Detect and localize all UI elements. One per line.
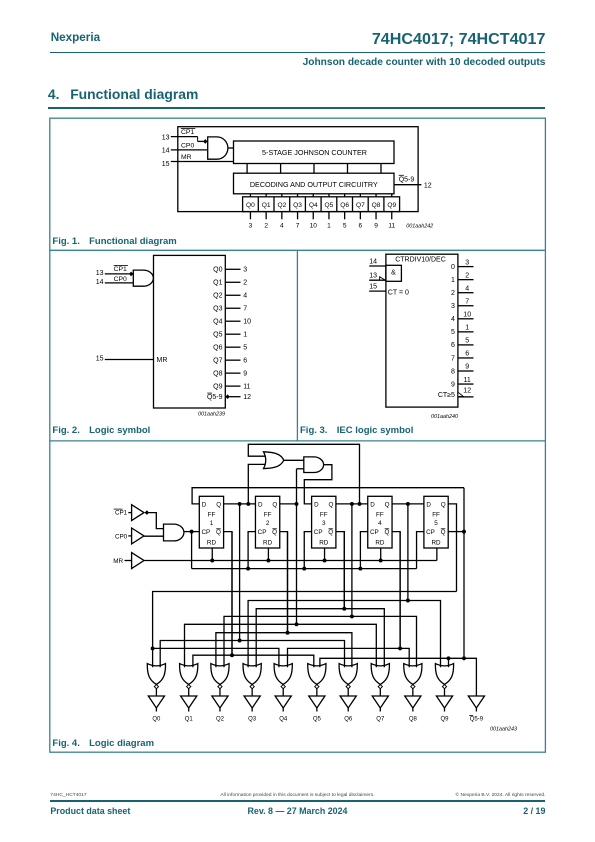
OR gate U1 fig4 (264, 452, 284, 469)
drawing id 001aah240 (431, 414, 458, 420)
svg-text:FF: FF (208, 511, 216, 518)
label CP0 fig2 (114, 276, 127, 283)
node Q5b G9 tap (447, 656, 451, 660)
svg-text:10: 10 (463, 312, 471, 319)
label CT>=5 fig3 (438, 392, 455, 399)
label CP0 fig4 (115, 533, 128, 540)
NOR gate G9 (435, 664, 453, 696)
NOR gate G7 (371, 664, 389, 696)
NOR gate G8 (404, 664, 422, 696)
NOR gate G4 (274, 664, 292, 696)
wire Q1 to OR gate bottom (248, 464, 265, 504)
svg-text:Q2: Q2 (277, 202, 286, 209)
wire Q3b drop (343, 532, 345, 609)
wire CP1 fig2 (105, 273, 129, 275)
pin 14 label fig1 (162, 148, 170, 155)
buffer CP0 fig4 (132, 528, 144, 544)
svg-text:7: 7 (465, 298, 469, 305)
svg-text:14: 14 (162, 148, 170, 155)
svg-text:4: 4 (451, 316, 455, 323)
wire AND output to FF3 D (304, 465, 332, 504)
AND sub-box fig3 (386, 265, 402, 281)
svg-text:6: 6 (359, 223, 363, 230)
svg-text:Q4: Q4 (279, 717, 288, 723)
svg-text:Q: Q (441, 501, 446, 508)
label Q1 (185, 717, 194, 723)
wire FF1 Q to FF2 D (224, 503, 256, 505)
svg-text:Q6: Q6 (344, 717, 353, 723)
svg-text:Q1: Q1 (185, 717, 194, 723)
svg-text:9: 9 (465, 364, 469, 371)
NOR gate G2 (211, 664, 229, 696)
svg-text:RD: RD (375, 540, 385, 547)
svg-text:FF: FF (432, 511, 440, 518)
svg-text:7: 7 (296, 223, 300, 230)
wire Q2 to AND bottom (297, 468, 304, 470)
svg-text:1: 1 (243, 332, 247, 339)
label Q6 (344, 717, 353, 723)
svg-text:Q8: Q8 (372, 202, 381, 209)
inverter Q5 (309, 696, 325, 712)
svg-text:CP0: CP0 (115, 533, 128, 540)
svg-text:Q: Q (272, 529, 277, 536)
NOR gate G0 (147, 664, 165, 696)
wire CP bus (192, 568, 417, 570)
labels Q0-Q9 cells fig1 (246, 202, 396, 209)
svg-text:Q: Q (384, 529, 389, 536)
wire FF2 Q to Q2 riser (280, 503, 297, 505)
wire CP0 input fig1 (171, 149, 208, 151)
svg-text:CP1: CP1 (114, 266, 127, 273)
svg-text:D: D (314, 501, 319, 508)
wire OR to AND fig4 (284, 459, 304, 461)
label CP1 fig1 (181, 128, 196, 136)
svg-text:10: 10 (310, 223, 318, 230)
wire MR fig2 (105, 359, 154, 361)
label Q5-9 fig4 (469, 716, 483, 723)
label CT=0 fig3 (388, 290, 409, 297)
wire Q5b into G9 (448, 658, 450, 667)
label Q9 (440, 717, 449, 723)
pin 15 label fig3 (369, 284, 377, 291)
drawing id 001aah239 (198, 412, 225, 418)
wire MR stub (125, 560, 132, 562)
wire CP0 fig2 (105, 282, 134, 284)
wire Q2 riser-drop (296, 469, 298, 625)
label Q7 (376, 717, 385, 723)
svg-text:13: 13 (369, 273, 377, 280)
buffer MR fig4 (132, 553, 144, 569)
svg-text:7: 7 (451, 355, 455, 362)
svg-text:Q5-9: Q5-9 (207, 394, 223, 401)
svg-text:7: 7 (243, 306, 247, 313)
wire CP0 to clock AND (144, 535, 164, 537)
wire FF1 Qb out (224, 532, 232, 656)
wire Q4 level (248, 601, 440, 668)
pin 13 label fig2 (96, 270, 104, 277)
IC outline box fig1 (178, 127, 418, 212)
drawing id 001aah242 (406, 223, 433, 229)
pin 12 label fig1 (424, 182, 432, 189)
node Q5b junction (462, 530, 466, 534)
svg-text:MR: MR (157, 357, 168, 364)
label Q5-9 fig1 (399, 175, 415, 183)
wire CT>=5 fig3 (458, 396, 474, 398)
svg-text:5: 5 (451, 329, 455, 336)
node Q4 level tap (406, 599, 410, 603)
wire Q4 drop (407, 504, 409, 601)
pin 13 label fig1 (162, 134, 170, 141)
node Q2 level tap (295, 622, 299, 626)
pin 14 label fig3 (369, 259, 377, 266)
wire CP0 stub (128, 535, 131, 537)
wire Q2b drop (287, 532, 289, 633)
pin numbers fig3 (463, 259, 471, 383)
svg-text:CP: CP (314, 529, 323, 536)
wire Q2b level (216, 633, 352, 668)
figure grid outer frame (50, 118, 546, 752)
wire Q4b level (288, 648, 410, 667)
svg-text:1: 1 (327, 223, 331, 230)
pin numbers fig2 (243, 267, 251, 391)
svg-text:Q: Q (385, 501, 390, 508)
svg-text:4: 4 (243, 293, 247, 300)
svg-text:6: 6 (243, 358, 247, 365)
NOR gate G6 (339, 664, 357, 696)
node Q1 level tap (238, 639, 242, 643)
inverter Q9 (436, 696, 452, 712)
wire Q5 branch to G4 (153, 648, 279, 667)
wire FF5 Q out (448, 504, 456, 592)
dynamic indicator pin13 fig3 (380, 277, 386, 280)
svg-text:Q3: Q3 (213, 306, 222, 313)
label CTRDIV10/DEC (395, 257, 446, 264)
box decoding and output circuitry (234, 173, 395, 194)
svg-text:5: 5 (243, 345, 247, 352)
wire clock to FF1 CP (184, 531, 199, 533)
svg-text:CT = 0: CT = 0 (388, 290, 409, 297)
svg-text:Q0: Q0 (213, 267, 222, 274)
wire Q5-9 fig2 (230, 396, 241, 398)
svg-text:13: 13 (96, 270, 104, 277)
inverter bubble CP1 fig1 (203, 139, 208, 144)
logic symbol box fig2 (154, 255, 226, 408)
wire FF3 Qb out (336, 532, 344, 609)
stubs decoder to cells fig1 (250, 194, 391, 197)
flip-flop FF2 (255, 496, 279, 548)
svg-text:CP: CP (202, 529, 211, 536)
svg-text:Q: Q (216, 529, 221, 536)
svg-text:Q5-9: Q5-9 (470, 717, 484, 723)
svg-text:CP0: CP0 (114, 276, 127, 283)
inverter bubble CP1 fig2 (129, 272, 134, 277)
svg-text:Q: Q (272, 501, 277, 508)
svg-text:CP0: CP0 (181, 143, 194, 150)
svg-text:Q4: Q4 (309, 202, 318, 209)
figure grid divider fig1-fig23 (50, 249, 546, 251)
wire pin13 fig3 (369, 279, 386, 281)
wire FF4 Q to FF5 D (392, 503, 424, 505)
wire Q5b vertical (463, 488, 465, 659)
output pin numbers fig1 (249, 223, 396, 230)
svg-text:4: 4 (465, 285, 469, 292)
NOR gate G5 (308, 664, 326, 696)
svg-text:Q: Q (328, 529, 333, 536)
svg-text:9: 9 (243, 371, 247, 378)
wires RD drops FF1-FF4 (210, 548, 382, 562)
svg-text:3: 3 (322, 520, 326, 527)
label CP1 fig2 (114, 265, 128, 273)
flip-flop FF4 (368, 496, 392, 548)
inverter Q3 (244, 696, 260, 712)
figure grid divider fig2-fig3 (296, 250, 298, 441)
wire Q1 drop (239, 504, 241, 641)
svg-text:0: 0 (451, 264, 455, 271)
output pin lines fig1 (250, 212, 391, 220)
wire Q2 level (185, 624, 377, 667)
label Q0 (152, 717, 161, 723)
figure grid divider fig23-fig4 (50, 440, 546, 442)
svg-text:Q1: Q1 (213, 280, 222, 287)
svg-text:2: 2 (465, 272, 469, 279)
node Q1 weave tap (238, 502, 242, 506)
svg-text:4: 4 (378, 520, 382, 527)
svg-text:RD: RD (207, 540, 217, 547)
svg-text:CTRDIV10/DEC: CTRDIV10/DEC (395, 257, 446, 264)
svg-text:2: 2 (243, 280, 247, 287)
svg-text:CP: CP (258, 529, 267, 536)
output wires fig3 (458, 267, 474, 384)
pin 15 label fig1 (162, 161, 170, 168)
label Q2 (216, 717, 225, 723)
wire clock down to CP bus (191, 532, 193, 569)
svg-text:6: 6 (465, 351, 469, 358)
svg-text:CP1: CP1 (181, 129, 194, 136)
svg-text:Q0: Q0 (246, 202, 255, 209)
wire MR bus (144, 560, 437, 562)
svg-text:14: 14 (369, 259, 377, 266)
inverter Q0 (148, 696, 164, 712)
svg-text:14: 14 (96, 279, 104, 286)
wire FF3 Q to FF4 D (336, 503, 368, 505)
AND gate clock fig4 (164, 524, 184, 541)
wire pin14 fig3 (369, 265, 386, 267)
label CP0 fig1 (181, 143, 194, 150)
AND gate fig2 (133, 270, 153, 286)
wire MR input fig1 (171, 161, 234, 163)
svg-text:Q3: Q3 (293, 202, 302, 209)
bus counter to decoder (247, 164, 381, 174)
svg-text:Q1: Q1 (262, 202, 271, 209)
label 5-stage johnson counter (262, 148, 367, 157)
svg-text:MR: MR (113, 558, 123, 565)
node clock bus tap (190, 530, 194, 534)
label CP1 fig4 (114, 509, 128, 516)
svg-text:DECODING AND OUTPUT CIRCUITRY: DECODING AND OUTPUT CIRCUITRY (250, 180, 378, 189)
wire O5-9 output fig1 (394, 184, 421, 186)
svg-text:Q7: Q7 (376, 717, 385, 723)
svg-text:15: 15 (162, 161, 170, 168)
svg-text:CT≥5: CT≥5 (438, 392, 455, 399)
svg-text:Q8: Q8 (213, 371, 222, 378)
svg-text:2: 2 (264, 223, 268, 230)
node Q1 OR tap (246, 502, 250, 506)
pin 12 label fig3 (463, 388, 471, 395)
inverter Q7 (372, 696, 388, 712)
svg-text:Q5: Q5 (213, 332, 222, 339)
wire Q5 into G0 (152, 648, 154, 667)
wire pin15 fig3 (369, 290, 386, 292)
svg-text:Q7: Q7 (356, 202, 365, 209)
wires CP risers FF2-FF4 (246, 532, 368, 571)
svg-text:Q: Q (216, 501, 221, 508)
labels 0-9 fig3 (451, 264, 455, 388)
wire feedback rail Q5b to FF1 D (192, 488, 464, 504)
label amp fig3 (391, 269, 396, 276)
wire Q5 level (153, 592, 457, 649)
svg-text:Q5-9: Q5-9 (399, 176, 415, 183)
pin 15 label fig2 (96, 356, 104, 363)
svg-text:D: D (202, 501, 207, 508)
pin 14 label fig2 (96, 279, 104, 286)
node Q3b level tap (342, 607, 346, 611)
svg-text:11: 11 (464, 377, 471, 384)
label Q5-9 fig2 (207, 393, 223, 401)
output cell row fig1 (243, 197, 400, 212)
svg-text:1: 1 (451, 277, 455, 284)
wire CP1 stub (128, 512, 131, 514)
svg-text:1: 1 (210, 520, 214, 527)
svg-text:Q9: Q9 (213, 384, 222, 391)
svg-text:9: 9 (451, 381, 455, 388)
label Q5 (313, 717, 322, 723)
inverter Q4 (275, 696, 291, 712)
box 5-stage johnson counter (234, 141, 395, 164)
svg-text:RD: RD (263, 540, 273, 547)
svg-text:CP: CP (426, 529, 435, 536)
node Q3 weave tap (350, 502, 354, 506)
svg-text:001aah239: 001aah239 (198, 412, 225, 418)
wire CP1 input fig1 (171, 137, 204, 142)
svg-text:Q4: Q4 (213, 319, 222, 326)
NOR gate G1 (180, 664, 198, 696)
labels Q0-Q9 fig2 (213, 267, 222, 391)
svg-text:5: 5 (434, 520, 438, 527)
svg-text:Q2: Q2 (216, 717, 225, 723)
wire Q3b level (256, 609, 384, 668)
svg-text:001aah240: 001aah240 (431, 414, 458, 420)
flip-flop FF5 (424, 496, 448, 548)
wire CP riser FF5 (417, 532, 424, 569)
svg-text:D: D (258, 501, 263, 508)
svg-text:11: 11 (388, 223, 395, 230)
inverter Q8 (405, 696, 421, 712)
svg-text:D: D (426, 501, 431, 508)
svg-text:001aah242: 001aah242 (406, 223, 433, 229)
inverter bubble CP1 fig4 (145, 510, 150, 515)
label decoding and output circuitry (250, 180, 378, 189)
inverter Q6 (340, 696, 356, 712)
node Q2 junction (295, 502, 299, 506)
output wires Q0-Q9 fig2 (225, 269, 240, 386)
svg-text:2: 2 (266, 520, 270, 527)
svg-text:5: 5 (465, 338, 469, 345)
dynamic indicator CT>=5 fig3 (458, 392, 464, 396)
node Q5 branch (151, 646, 155, 650)
flip-flop FF3 (312, 496, 336, 548)
svg-text:12: 12 (243, 394, 251, 401)
svg-text:Q7: Q7 (213, 358, 222, 365)
node Q1b level tap (230, 653, 234, 657)
label MR fig1 (181, 154, 192, 161)
wire Q4b drop (399, 532, 401, 649)
svg-text:12: 12 (463, 388, 471, 395)
svg-text:11: 11 (243, 384, 250, 391)
svg-text:&: & (391, 269, 396, 276)
wire Q1b drop (231, 532, 233, 656)
svg-text:6: 6 (451, 342, 455, 349)
svg-text:FF: FF (320, 511, 328, 518)
wire RD drop FF5 (436, 548, 438, 561)
inverter bubble Q5-9 fig2 (225, 394, 230, 399)
buffer CP1 fig4 (132, 505, 144, 521)
label Q3 (248, 717, 257, 723)
svg-text:3: 3 (451, 303, 455, 310)
svg-text:9: 9 (374, 223, 378, 230)
wire FF4 Qb out (392, 532, 400, 649)
svg-text:13: 13 (162, 134, 170, 141)
svg-text:2: 2 (451, 290, 455, 297)
svg-text:Q5: Q5 (325, 202, 334, 209)
svg-text:Q9: Q9 (387, 202, 396, 209)
label Q4 (279, 717, 288, 723)
svg-text:4: 4 (280, 223, 284, 230)
wire Q3 drop (351, 504, 353, 617)
svg-text:CP1: CP1 (115, 509, 128, 516)
svg-text:Q0: Q0 (152, 717, 161, 723)
svg-text:Q9: Q9 (440, 717, 449, 723)
wire FF5 Qb out (448, 531, 464, 533)
svg-text:FF: FF (264, 511, 272, 518)
svg-text:Q: Q (441, 529, 446, 536)
inverter Q5-9 out (468, 696, 484, 712)
wire FF2 Qb out (280, 532, 288, 633)
wire Q1 level (160, 641, 344, 668)
inverter Q1 (181, 696, 197, 712)
svg-text:RD: RD (319, 540, 329, 547)
svg-text:15: 15 (96, 356, 104, 363)
wire Q3 level (224, 616, 417, 667)
wire CP1 to clock AND (149, 513, 164, 529)
IEC symbol box fig3 (386, 254, 458, 407)
label MR fig4 (113, 558, 123, 565)
svg-text:Q6: Q6 (340, 202, 349, 209)
svg-text:Q: Q (328, 501, 333, 508)
drawing id 001aah243 (490, 727, 517, 733)
node Q4 weave tap (406, 502, 410, 506)
node Q4b level tap (398, 646, 402, 650)
AND gate U2 fig4 (304, 457, 324, 473)
svg-text:12: 12 (424, 182, 432, 189)
svg-text:RD: RD (431, 540, 441, 547)
svg-text:Q8: Q8 (409, 717, 418, 723)
svg-text:Q6: Q6 (213, 345, 222, 352)
AND gate clock fig1 (208, 137, 228, 159)
node Q3 level tap (350, 614, 354, 618)
svg-text:5-STAGE JOHNSON COUNTER: 5-STAGE JOHNSON COUNTER (262, 148, 367, 157)
pin 13 label fig3 (369, 273, 377, 280)
svg-text:CP: CP (370, 529, 379, 536)
